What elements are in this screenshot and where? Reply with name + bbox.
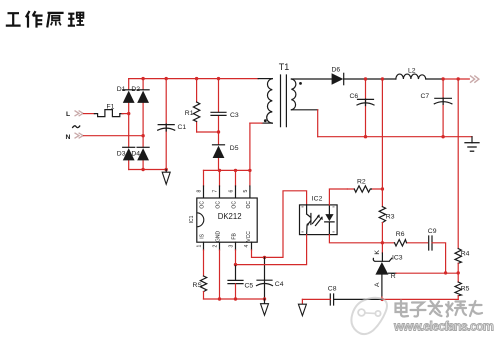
wire pin 6 stub [235,170,237,186]
svg-text:C3: C3 [230,112,239,119]
wire D6 to L2 [344,78,396,80]
node C1 bottom [165,168,168,171]
wire fuse to bridge node [122,113,129,115]
node pin5 drain rail [248,169,251,172]
node GND rail C5 [234,297,237,300]
ground earth secondary [465,137,479,152]
watermark logo [351,298,387,334]
wire R2 left to LED anode [329,189,347,205]
svg-text:C1: C1 [178,124,187,131]
svg-text:C4: C4 [275,281,284,288]
svg-text:RS: RS [193,282,203,289]
wire pin 2 column [219,242,221,250]
svg-text:R: R [391,273,396,280]
node C3 top [217,77,220,80]
secondary polarity dot [299,82,302,85]
node N/bridge junction [141,134,144,137]
transformer primary winding [267,79,273,124]
svg-text:5: 5 [243,190,249,193]
op-amp U1 DK212 body [189,198,257,242]
wire output [443,78,469,80]
svg-text:OC: OC [246,201,252,209]
wire bridge bottom rail [129,169,166,171]
node D4 bottom rail [141,168,144,171]
node divider column top [457,77,460,80]
wire secondary bottom rail [382,298,458,300]
wire secondary bottom lead [291,109,317,111]
svg-text:T1: T1 [279,62,290,72]
wire pin 1 column [203,242,205,250]
wire snubber bottom [197,131,219,133]
wire pin 3 column [235,242,237,250]
node C7 top [441,77,444,80]
svg-text:L: L [66,111,70,118]
wire L2 to C7 node [426,78,443,80]
node anode ground rail [381,298,384,301]
svg-text:A: A [374,282,381,287]
node C7 bottom [441,135,444,138]
svg-text:8: 8 [197,190,203,193]
output connector [470,76,479,83]
svg-text:C7: C7 [421,93,430,100]
wire D2 column [142,79,144,170]
wire feedback column [381,79,383,189]
svg-text:C8: C8 [328,285,337,292]
svg-text:FB: FB [232,233,238,240]
svg-text:OC: OC [216,201,222,209]
svg-text:N: N [66,134,71,141]
node C9 to divider tap [444,271,447,274]
ac symbol ~ [72,126,80,129]
wire D1 column [128,79,130,170]
node C6 bottom [364,135,367,138]
wire dc top rail [129,78,259,80]
node feedback column top [381,77,384,80]
wire secondary ground rail [318,136,472,138]
svg-text:6: 6 [229,190,235,193]
title 工作原理 [6,11,84,28]
transformer secondary winding [291,79,295,110]
svg-text:D5: D5 [230,145,239,152]
svg-text:IS: IS [200,233,206,238]
svg-text:D3: D3 [117,150,126,157]
svg-text:DK212: DK212 [218,212,242,221]
node GND rail pin2 [218,297,221,300]
svg-text:1: 1 [197,245,203,248]
node snubber/D5 [217,130,220,133]
svg-text:IC3: IC3 [392,255,403,262]
wire L input to fuse [84,113,95,115]
svg-text:OC: OC [232,201,238,209]
wire pin 8 stub [203,170,205,186]
wire primary-side ground rail [204,298,265,300]
node VCC junction [263,256,266,259]
ground primary side [261,299,269,315]
node F1/bridge junction [127,112,130,115]
node C6 top [364,77,367,80]
svg-text:R2: R2 [357,178,366,185]
wire optocoupler emitter to FB [236,235,307,265]
wire pin 5 stub [249,170,251,186]
wire secondary top lead [291,78,331,80]
wire divider column [457,79,459,249]
transformer core [281,75,287,127]
wire drain rail [204,169,250,171]
ground bridge [162,170,170,185]
wire VCC to optocoupler collector [265,191,307,258]
wire pin 4 column [251,242,253,250]
wire primary top lead [258,78,272,80]
svg-text:R3: R3 [386,213,395,220]
wire primary bottom lead [262,122,272,124]
ground C8 [298,299,306,315]
watermark 电子发烧友 [396,301,483,317]
node D5 drain rail [218,169,221,172]
wire optocoupler LED cathode to reference node [329,235,382,243]
node divider tap [457,271,460,274]
svg-text:OC: OC [200,201,206,209]
svg-text:IC2: IC2 [312,196,323,203]
wire N input to bridge [84,135,144,137]
wire drain column from primary [249,123,251,170]
node C1 top [165,77,168,80]
svg-text:IC1: IC1 [189,215,195,223]
wire pin 7 stub [219,170,221,186]
svg-text:2: 2 [213,245,219,248]
svg-text:7: 7 [213,190,219,193]
node D2 top rail [141,77,144,80]
svg-text:4: 4 [244,245,250,248]
svg-text:3: 3 [229,245,235,248]
node GND rail C4 [263,297,266,300]
node FB junction [234,263,237,266]
svg-text:GND: GND [216,230,222,242]
svg-text:D4: D4 [131,150,140,157]
node R1 top [195,77,198,80]
svg-text:R5: R5 [461,285,470,292]
node R2 right [381,187,384,190]
svg-text:K: K [374,250,381,255]
node R3 bottom junction [381,241,384,244]
svg-text:www.elecfans.com: www.elecfans.com [393,320,494,334]
svg-text:VCC: VCC [246,231,252,242]
node pin6 drain rail [234,169,237,172]
svg-text:C5: C5 [245,283,254,290]
svg-text:R6: R6 [396,231,405,238]
primary polarity dot [264,119,267,122]
svg-text:D6: D6 [332,66,341,73]
svg-text:C9: C9 [428,228,437,235]
